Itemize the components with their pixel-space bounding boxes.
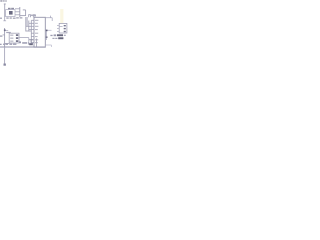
ground stub under U2 [3, 17, 6, 21]
text marks under left area [0, 44, 16, 45]
connector J2 pin pads [64, 25, 66, 32]
component U2 body blob [9, 11, 13, 15]
wire from J1 to crystal area [18, 38, 28, 41]
connector J1 pin pads [16, 34, 18, 42]
net label left mid [0, 35, 2, 36]
connector J1 box [9, 33, 19, 43]
wire J1 to left [5, 42, 10, 44]
resistor R1 body [57, 34, 63, 36]
IC U1 pin name text marks [35, 20, 38, 43]
IC U1 pin stubs left [26, 20, 34, 42]
crystal Y1 lower plate [29, 44, 33, 46]
wire vertical bottom left [4, 47, 6, 64]
node with junction dots right of U1 [46, 30, 52, 40]
connector J1 label above [6, 32, 11, 33]
capacitor C1 [28, 15, 31, 18]
connector J1 pin names [10, 35, 13, 42]
ground rail [0, 46, 45, 48]
IC U1 box [34, 17, 45, 47]
net label text right lower 1 [50, 34, 56, 36]
connector J2 inner pin line [59, 26, 62, 28]
connector J2 box right [59, 23, 67, 33]
wire stub left mid [3, 34, 5, 36]
net label mid-left of channel [16, 17, 22, 18]
wire vertical left top [4, 4, 6, 17]
wire channel verticals [26, 17, 32, 45]
net label top-left [0, 0, 6, 2]
wire top right from U1 [45, 16, 52, 21]
connector J2 left pins [57, 26, 59, 32]
pin labels under U2 [0, 17, 16, 18]
U2 right pins [15, 9, 20, 15]
wire stub bottom right of U1 [46, 45, 52, 47]
ground blob bottom [4, 64, 6, 66]
capacitor C2 [33, 15, 36, 18]
junction dot D1 [4, 29, 6, 31]
wire stub at lower-left dot [6, 29, 9, 31]
capacitor C3 row marks [19, 41, 29, 44]
yellow highlight wire [60, 9, 63, 24]
component U2 label [8, 8, 14, 10]
wire riser x25.5 [20, 10, 26, 16]
resistor R2 body [58, 37, 63, 39]
wire vertical left lower [4, 28, 6, 47]
IC U1 label above [31, 15, 36, 16]
net label text right lower 2 [52, 38, 57, 39]
net label right of R1 [64, 35, 66, 36]
wire bus x20 [19, 7, 21, 17]
crystal Y1 [29, 40, 33, 44]
component U2 box (regulator) [6, 10, 15, 17]
wire small vertical near IC bottom left [36, 39, 38, 47]
